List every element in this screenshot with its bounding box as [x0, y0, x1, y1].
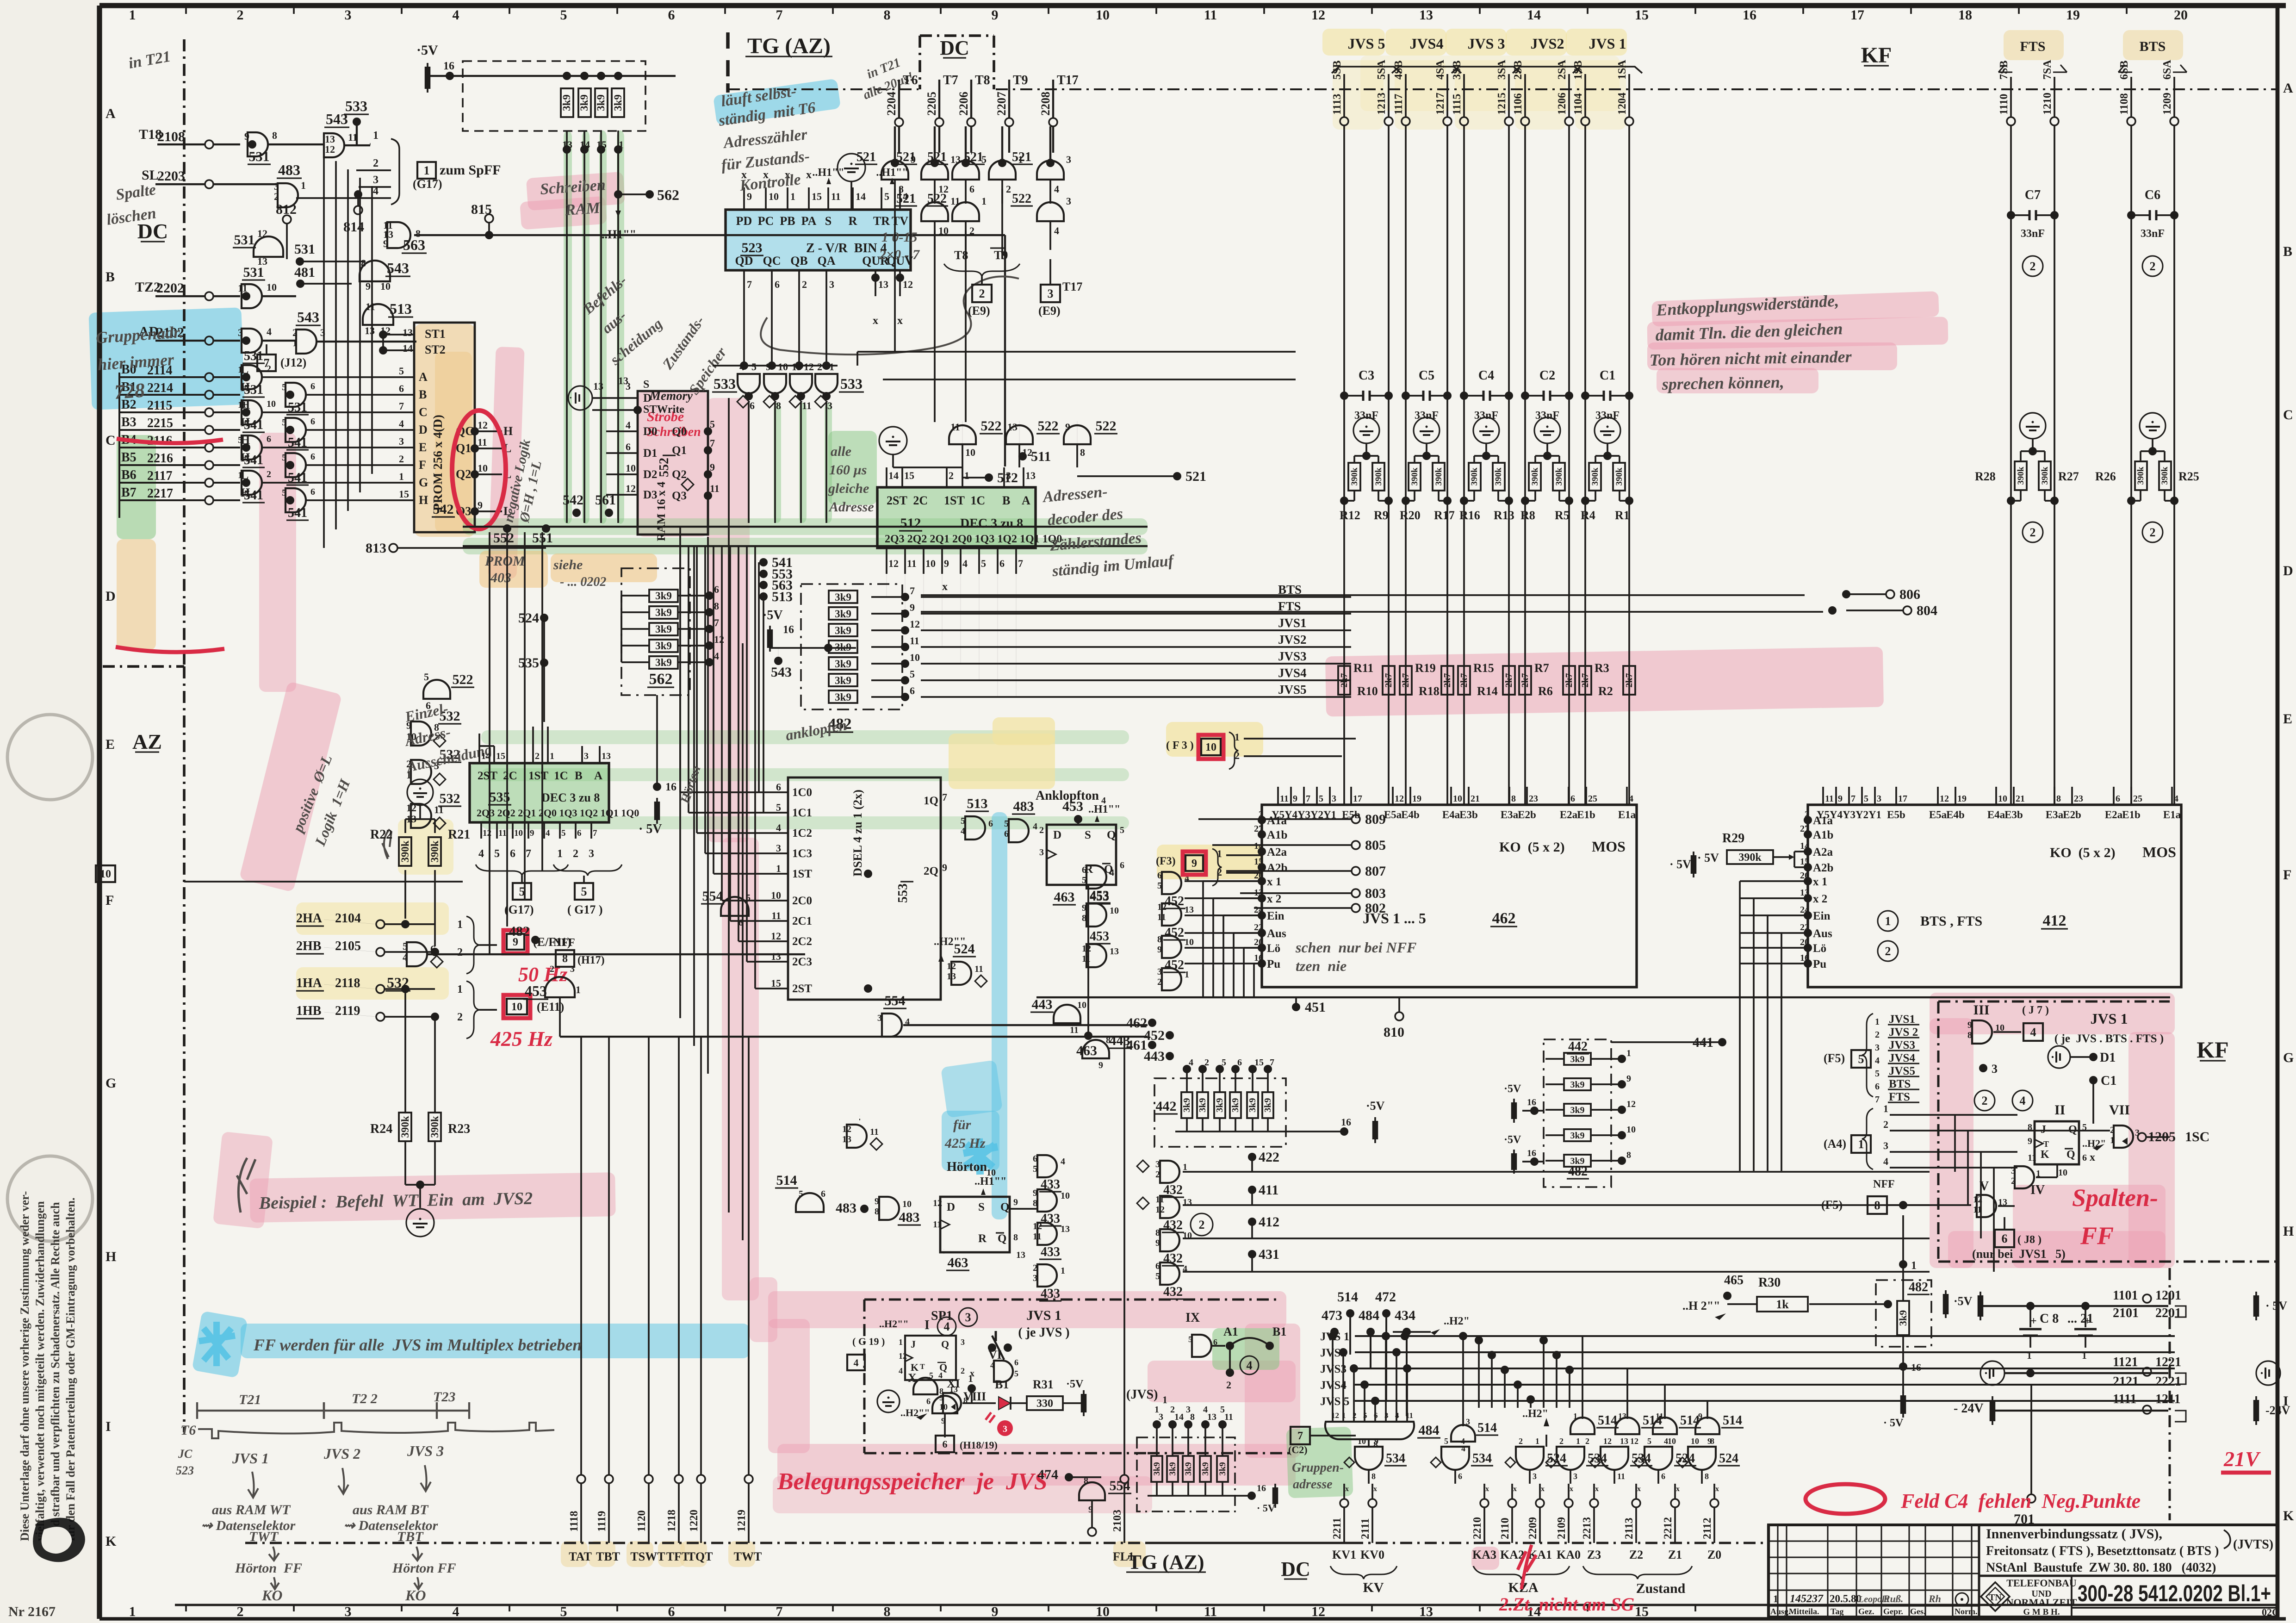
- svg-text:10: 10: [1668, 1436, 1676, 1446]
- svg-text:A: A: [105, 106, 116, 121]
- circled 2 and 4: [1974, 1090, 2033, 1111]
- svg-text:TG (AZ): TG (AZ): [1128, 1551, 1204, 1573]
- svg-text:II: II: [2054, 1102, 2065, 1118]
- svg-text:JVS 1 ... 5: JVS 1 ... 5: [1363, 910, 1426, 927]
- svg-text:E2b: E2b: [1518, 809, 1536, 821]
- svg-text:Ges.: Ges.: [1910, 1607, 1926, 1616]
- junction labels 541 553 563 513: [759, 555, 793, 604]
- svg-text:2SA: 2SA: [1556, 60, 1568, 80]
- TG AZ divider vertical: [726, 32, 730, 93]
- svg-text:3: 3: [965, 1311, 971, 1324]
- svg-text:B: B: [1002, 494, 1010, 507]
- svg-text:1: 1: [1626, 1048, 1631, 1058]
- svg-text:9: 9: [1155, 1238, 1160, 1248]
- svg-text:8: 8: [884, 7, 891, 23]
- svg-text:4: 4: [1395, 1411, 1399, 1420]
- svg-text:3: 3: [1573, 1472, 1577, 1481]
- svg-text:11: 11: [1204, 1604, 1217, 1619]
- svg-text:3: 3: [877, 1013, 882, 1023]
- svg-text:·5V: ·5V: [1066, 1378, 1084, 1390]
- svg-text:Z2: Z2: [1629, 1548, 1643, 1561]
- svg-text:PB: PB: [780, 214, 795, 228]
- gate 532 output 6: [385, 940, 805, 991]
- svg-text:4: 4: [399, 418, 404, 429]
- svg-text:16: 16: [443, 60, 454, 72]
- input TZ2 wire 2202: [135, 280, 240, 300]
- svg-text:6: 6: [1374, 1411, 1378, 1420]
- svg-text:J: J: [2041, 1124, 2046, 1136]
- Spalten FF dash-dot frame: [1938, 995, 2277, 1268]
- svg-text:R13: R13: [1494, 509, 1514, 522]
- svg-text:1SB: 1SB: [1572, 61, 1584, 80]
- svg-text:T9: T9: [1013, 73, 1028, 87]
- svg-text:Ein: Ein: [1813, 910, 1831, 922]
- svg-text:3k9: 3k9: [835, 591, 851, 603]
- svg-text:13: 13: [842, 1134, 851, 1144]
- svg-text:7: 7: [776, 7, 783, 23]
- svg-text:9: 9: [244, 131, 249, 142]
- svg-text:R10: R10: [1357, 684, 1378, 698]
- svg-text:x 2: x 2: [1813, 893, 1827, 905]
- block 412 left pins: [1800, 809, 1833, 970]
- svg-text:KO (5 x 2): KO (5 x 2): [2050, 845, 2116, 860]
- svg-text:10: 10: [1110, 906, 1119, 916]
- svg-text:533: 533: [714, 375, 736, 392]
- svg-text:2: 2: [1885, 945, 1891, 958]
- svg-text:145237: 145237: [1790, 1593, 1824, 1605]
- svg-text:Q: Q: [998, 1232, 1006, 1245]
- T17 box 3 (E9): [1038, 259, 1082, 317]
- svg-text:2221: 2221: [2155, 1374, 2181, 1389]
- red arrow 2.Zt nicht am SG: [1499, 1545, 1634, 1615]
- svg-text:16: 16: [1743, 7, 1756, 23]
- svg-text:R16: R16: [1459, 509, 1480, 522]
- svg-text:A: A: [419, 370, 428, 384]
- svg-text:452: 452: [1165, 958, 1184, 972]
- svg-text:1: 1: [2110, 1135, 2115, 1145]
- svg-text:2217: 2217: [147, 486, 173, 501]
- svg-text:11: 11: [710, 483, 720, 494]
- svg-text:6: 6: [2002, 1232, 2008, 1245]
- svg-text:5: 5: [1033, 1164, 1037, 1174]
- svg-text:(nur bei JVS1 5): (nur bei JVS1 5): [1972, 1247, 2066, 1261]
- svg-text:13: 13: [1185, 905, 1194, 915]
- svg-text:5: 5: [561, 828, 566, 838]
- svg-text:9: 9: [1707, 1436, 1712, 1446]
- svg-text:D: D: [947, 1201, 955, 1213]
- svg-text:SL: SL: [142, 168, 159, 183]
- input AD wire 2102: [139, 324, 240, 345]
- svg-text:6: 6: [1570, 794, 1575, 804]
- svg-text:403: 403: [490, 570, 511, 585]
- brace 425Hz pair: [457, 981, 497, 1038]
- gate 543 lower: [360, 257, 410, 292]
- Belegungsspeicher dash-dot box: [864, 1300, 1291, 1453]
- svg-text:1: 1: [964, 470, 969, 481]
- svg-text:F: F: [105, 893, 114, 908]
- svg-text:6: 6: [310, 487, 315, 497]
- svg-text:1: 1: [1911, 1260, 1917, 1272]
- svg-text:2115: 2115: [147, 398, 172, 413]
- svg-text:x: x: [1373, 1485, 1377, 1493]
- svg-text:453: 453: [525, 983, 547, 999]
- JVS column vertical wires with terminals: [1331, 60, 1633, 805]
- svg-text:3k9: 3k9: [655, 607, 672, 618]
- svg-text:QD: QD: [735, 254, 753, 267]
- svg-text:3: 3: [1003, 1424, 1007, 1434]
- gates 522 triple above 512: [879, 418, 1117, 467]
- svg-text:Rh: Rh: [1928, 1593, 1941, 1604]
- svg-text:1211: 1211: [2155, 1392, 2180, 1406]
- svg-text:1: 1: [2027, 1349, 2032, 1361]
- svg-text:1: 1: [2082, 1349, 2087, 1361]
- svg-text:9: 9: [1191, 858, 1197, 870]
- svg-text:2105: 2105: [335, 939, 361, 953]
- svg-text:Hörton FF: Hörton FF: [392, 1561, 456, 1576]
- svg-text:13: 13: [1007, 421, 1018, 433]
- svg-text:(G17): (G17): [413, 177, 442, 191]
- svg-text:R23: R23: [448, 1122, 470, 1136]
- svg-text:vielfaltigt, verwendet noch mi: vielfaltigt, verwendet noch mitgeteilt w…: [33, 1201, 47, 1541]
- pencil Spalte loeschen: [105, 181, 157, 229]
- svg-text:2k7: 2k7: [1504, 673, 1514, 687]
- svg-text:4: 4: [2020, 1094, 2026, 1107]
- svg-text:1209: 1209: [2161, 93, 2173, 115]
- node 474 and gate 554: [1037, 1453, 1131, 1536]
- long bus wires 482 to right blocks: [921, 595, 1823, 612]
- svg-text:3k9: 3k9: [1182, 1098, 1192, 1112]
- svg-text:5: 5: [238, 435, 242, 445]
- svg-text:x: x: [873, 315, 878, 327]
- svg-text:Lö: Lö: [1267, 942, 1280, 955]
- svg-text:A2a: A2a: [1813, 846, 1833, 858]
- svg-text:E: E: [419, 441, 427, 454]
- svg-text:11: 11: [1082, 954, 1091, 964]
- ground + 390k pairs FTS BTS: [1975, 413, 2199, 542]
- svg-text:9: 9: [1013, 1197, 1018, 1207]
- svg-text:14: 14: [888, 470, 899, 481]
- svg-text:1: 1: [550, 751, 554, 761]
- node 463 below: [1076, 885, 1097, 1058]
- svg-text:·5V: ·5V: [416, 43, 438, 58]
- svg-text:1215: 1215: [1496, 93, 1508, 115]
- svg-text:2: 2: [237, 7, 244, 23]
- svg-text:B: B: [105, 269, 115, 285]
- svg-text:9: 9: [1157, 945, 1162, 955]
- gate X: [908, 1371, 943, 1406]
- svg-text:1: 1: [399, 471, 404, 482]
- wires left pins block 462 from gates: [1185, 881, 1262, 964]
- svg-text:1: 1: [1185, 970, 1189, 980]
- node dots 462 452 461 443: [1126, 1015, 1174, 1064]
- svg-text:JVS5: JVS5: [1889, 1065, 1915, 1077]
- wire vertical bundle below gates 543: [324, 153, 372, 548]
- svg-text:390k: 390k: [1530, 467, 1540, 486]
- svg-text:Zustand: Zustand: [1636, 1581, 1686, 1596]
- svg-text:MOS: MOS: [1592, 838, 1626, 855]
- ground + 390k resistor pairs JVS: [1340, 417, 1633, 505]
- svg-text:2: 2: [817, 361, 822, 373]
- svg-text:VII: VII: [2109, 1102, 2130, 1118]
- svg-text:425 Hz: 425 Hz: [490, 1027, 552, 1051]
- svg-text:8: 8: [272, 130, 277, 141]
- gate 563: [383, 219, 1005, 466]
- svg-text:33nF: 33nF: [2141, 228, 2165, 240]
- svg-text:11: 11: [1656, 1412, 1663, 1421]
- node C1 dot: [2089, 1074, 2116, 1124]
- svg-text:JVS 1: JVS 1: [1589, 35, 1626, 52]
- svg-text:482: 482: [1568, 1164, 1588, 1179]
- drawing number: [2072, 1580, 2279, 1618]
- pencil Zustands-Speicher note: [659, 313, 730, 398]
- svg-text:12: 12: [626, 483, 636, 494]
- svg-text:NFF: NFF: [1873, 1178, 1895, 1190]
- svg-text:10: 10: [1205, 741, 1216, 753]
- svg-text:Memory: Memory: [649, 389, 693, 403]
- svg-text:3k9: 3k9: [612, 94, 624, 111]
- pencil note 0-15 2x0-7: [879, 230, 920, 262]
- counter 523 block: [726, 210, 913, 270]
- svg-text:3SA: 3SA: [1496, 60, 1508, 80]
- svg-text:10: 10: [1061, 1191, 1070, 1201]
- gate 524 H2 below: [842, 1116, 882, 1150]
- svg-text:KV: KV: [1363, 1580, 1384, 1595]
- svg-text:3: 3: [1159, 1412, 1163, 1422]
- svg-text:17: 17: [1898, 794, 1907, 804]
- svg-text:JVS4: JVS4: [1889, 1052, 1915, 1064]
- svg-text:·5V: ·5V: [1504, 1134, 1521, 1146]
- reference box 7 (J12): [257, 344, 306, 371]
- svg-text:S: S: [978, 1201, 985, 1213]
- svg-text:1HA: 1HA: [296, 976, 323, 990]
- svg-text:KV1: KV1: [1332, 1548, 1356, 1561]
- svg-text:Q: Q: [1000, 1201, 1009, 1213]
- svg-text:10: 10: [1077, 1000, 1086, 1010]
- svg-text:6: 6: [926, 1397, 931, 1406]
- svg-text:514: 514: [1598, 1413, 1617, 1428]
- svg-text:6: 6: [1004, 829, 1009, 839]
- svg-text:C1: C1: [1600, 368, 1615, 383]
- svg-text:10: 10: [1358, 1436, 1366, 1446]
- svg-text:4: 4: [403, 951, 408, 963]
- PROM outputs QC Q1 Q2 Q3: [456, 419, 513, 518]
- pencil Hoerton FF KO right: [392, 1547, 456, 1604]
- svg-text:6: 6: [1661, 1472, 1665, 1481]
- svg-text:TR: TR: [873, 214, 890, 228]
- gate 453 below NFF: [523, 977, 1148, 1037]
- svg-text:2: 2: [1559, 1436, 1564, 1446]
- svg-text:1: 1: [1154, 1405, 1159, 1415]
- wires 512 outputs to buses: [887, 574, 1016, 697]
- svg-text:1: 1: [1576, 1436, 1580, 1446]
- svg-text:483: 483: [1013, 799, 1034, 814]
- svg-text:390k: 390k: [1350, 467, 1359, 486]
- svg-text:5: 5: [282, 453, 286, 463]
- svg-text:390k: 390k: [1554, 467, 1564, 486]
- svg-text:390k: 390k: [1470, 467, 1479, 486]
- svg-text:1: 1: [457, 919, 463, 931]
- svg-text:4: 4: [1061, 1157, 1065, 1167]
- svg-text:521: 521: [856, 150, 876, 164]
- svg-text:2: 2: [267, 469, 271, 479]
- svg-text:R9: R9: [1374, 509, 1389, 522]
- DEC 512 bottom pins: [887, 548, 1023, 593]
- svg-text:6: 6: [310, 417, 315, 427]
- svg-text:A1a: A1a: [1267, 815, 1287, 827]
- svg-text:TELEFONBAU: TELEFONBAU: [2006, 1577, 2077, 1589]
- pink arrow Beispiel: [237, 1158, 255, 1213]
- svg-text:1210: 1210: [2042, 93, 2054, 115]
- svg-text:8: 8: [875, 1206, 879, 1217]
- blue star annotation: [963, 1138, 998, 1175]
- pencil T6 waveform: [180, 1423, 554, 1438]
- svg-text:13: 13: [1016, 1250, 1025, 1260]
- svg-text:FTS: FTS: [1889, 1091, 1910, 1103]
- svg-text:33nF: 33nF: [2021, 228, 2045, 240]
- node 562 stub: [602, 149, 679, 241]
- title block description text: [1979, 1526, 2277, 1576]
- svg-text:2208: 2208: [1039, 92, 1052, 116]
- svg-text:13: 13: [1110, 946, 1119, 957]
- svg-text:5: 5: [403, 940, 408, 952]
- svg-text:6: 6: [399, 383, 404, 394]
- svg-text:C: C: [2283, 407, 2293, 423]
- svg-text:521: 521: [964, 150, 983, 164]
- 543 node stub: [771, 648, 792, 680]
- svg-text:6: 6: [2116, 794, 2120, 804]
- svg-text:1Q: 1Q: [924, 795, 938, 807]
- svg-text:6: 6: [988, 819, 993, 829]
- svg-text:4: 4: [267, 326, 272, 337]
- inputs B0-B7 wires: [119, 362, 250, 518]
- svg-text:3k9: 3k9: [1263, 1098, 1273, 1112]
- svg-text:C7: C7: [2025, 188, 2041, 202]
- svg-text:BTS: BTS: [2140, 39, 2166, 54]
- svg-text:6: 6: [668, 1604, 675, 1619]
- svg-text:10: 10: [902, 1199, 912, 1209]
- svg-text:STWrite: STWrite: [643, 404, 684, 416]
- svg-text:511: 511: [1031, 449, 1051, 464]
- svg-text:JVS2: JVS2: [1531, 35, 1564, 52]
- terminal 813: [366, 541, 546, 556]
- svg-text:13: 13: [1419, 7, 1433, 23]
- svg-text:160 µs: 160 µs: [829, 462, 867, 478]
- svg-text:1SA: 1SA: [1616, 60, 1628, 80]
- svg-text:2113: 2113: [1623, 1517, 1635, 1539]
- svg-text:2108: 2108: [157, 129, 185, 144]
- svg-text:4: 4: [899, 1366, 903, 1375]
- svg-text:R15: R15: [1473, 661, 1494, 675]
- gate 522 left: [423, 671, 474, 711]
- svg-text:2: 2: [1226, 1379, 1231, 1391]
- svg-text:G: G: [419, 476, 428, 489]
- svg-text:13: 13: [1207, 1412, 1216, 1422]
- svg-text:T9: T9: [994, 249, 1008, 262]
- svg-text:JVS 5: JVS 5: [1320, 1395, 1349, 1408]
- svg-text:12: 12: [888, 558, 899, 569]
- svg-text:7: 7: [1851, 794, 1855, 804]
- svg-text:804: 804: [1917, 603, 1937, 618]
- svg-text:..H1"": ..H1"": [602, 228, 636, 241]
- FTS BTS labels top right: [1998, 39, 2187, 72]
- svg-text:E5a: E5a: [1929, 809, 1947, 821]
- capacitors C8..21: [2019, 1306, 2097, 1361]
- svg-text:523: 523: [742, 240, 763, 255]
- svg-text:5: 5: [1014, 1369, 1018, 1378]
- svg-text:815: 815: [471, 202, 492, 217]
- svg-text:D: D: [1053, 829, 1061, 841]
- svg-text:15: 15: [1635, 7, 1649, 23]
- svg-text:10: 10: [100, 868, 111, 880]
- svg-text:Pu: Pu: [1267, 958, 1280, 970]
- svg-text:1: 1: [301, 180, 306, 191]
- svg-text:12: 12: [1331, 1411, 1339, 1420]
- svg-text:Diese Unterlage darf ohne unse: Diese Unterlage darf ohne unsere vorheri…: [18, 1191, 31, 1541]
- svg-text:TG (AZ): TG (AZ): [747, 34, 831, 58]
- svg-text:12: 12: [1630, 1436, 1638, 1446]
- svg-text:1: 1: [1858, 1138, 1864, 1151]
- svg-text:PC: PC: [758, 214, 774, 228]
- svg-text:7: 7: [714, 617, 719, 628]
- svg-text:10: 10: [939, 1402, 948, 1412]
- pencil Gruppenadr hier immer 728: [95, 323, 184, 404]
- node dots 422 411 412 431: [1181, 1150, 1279, 1267]
- svg-text:C: C: [105, 433, 116, 448]
- terminal 814: [343, 190, 364, 235]
- H2 arrow mid row: [1522, 1408, 1549, 1447]
- svg-text:2: 2: [802, 279, 807, 290]
- block 412 KO(5x2) BTS FTS: [1808, 787, 2181, 987]
- svg-text:5: 5: [1858, 1052, 1864, 1066]
- svg-text:R6: R6: [1538, 684, 1553, 698]
- svg-text:1201: 1201: [2155, 1288, 2181, 1303]
- svg-text:330: 330: [1036, 1398, 1053, 1410]
- svg-text:3: 3: [1877, 794, 1881, 804]
- svg-text:2: 2: [2150, 526, 2156, 539]
- svg-text:2: 2: [1033, 1263, 1037, 1273]
- svg-text:9: 9: [383, 238, 388, 249]
- svg-text:Y3: Y3: [1297, 809, 1310, 821]
- svg-text:5: 5: [1444, 1436, 1448, 1446]
- svg-text:K: K: [2041, 1149, 2049, 1161]
- svg-text:XI: XI: [947, 1377, 960, 1390]
- svg-text:Norm.: Norm.: [1955, 1607, 1977, 1616]
- svg-text:JVS 3: JVS 3: [407, 1443, 444, 1459]
- svg-text:11: 11: [907, 558, 917, 569]
- svg-text:484: 484: [1359, 1308, 1379, 1323]
- gates 532 column: [406, 709, 461, 829]
- svg-text:2C2: 2C2: [792, 935, 812, 948]
- svg-text:1118: 1118: [568, 1511, 580, 1532]
- svg-text:2101: 2101: [2113, 1306, 2139, 1320]
- svg-text:Ton hören nicht mit einander: Ton hören nicht mit einander: [1649, 347, 1852, 369]
- svg-text:2: 2: [1519, 1436, 1523, 1446]
- svg-text:23: 23: [1529, 794, 1538, 804]
- svg-text:3k9: 3k9: [595, 94, 607, 111]
- svg-text:2: 2: [1039, 825, 1044, 835]
- svg-text:T8: T8: [975, 73, 990, 87]
- svg-text:6: 6: [2082, 1153, 2087, 1163]
- svg-text:2k7: 2k7: [1520, 673, 1530, 687]
- svg-text:3: 3: [1039, 847, 1044, 858]
- pencil in T21 top left: [127, 48, 172, 72]
- FF I block: [847, 1317, 974, 1380]
- svg-text:2211: 2211: [1331, 1517, 1343, 1539]
- svg-text:2HA: 2HA: [296, 911, 323, 926]
- svg-text:3k9: 3k9: [578, 94, 590, 111]
- svg-text:1213: 1213: [1376, 93, 1388, 115]
- svg-text:6: 6: [510, 848, 515, 860]
